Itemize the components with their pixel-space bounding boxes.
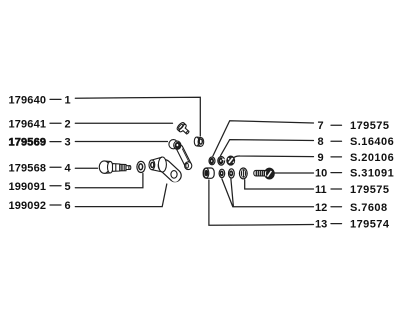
- svg-text:179574: 179574: [350, 219, 390, 231]
- part 9 nut S.20106: [227, 156, 235, 165]
- label row 11 - 179575: [315, 184, 389, 196]
- leader line 8: [221, 140, 314, 156]
- leader line 2: [75, 122, 172, 124]
- leader line 3: [75, 141, 167, 143]
- leader line 11: [245, 180, 314, 189]
- svg-text:179575: 179575: [350, 184, 389, 196]
- part 10 screw S.31091: [254, 168, 274, 179]
- leader line 6: [75, 184, 167, 207]
- svg-text:11: 11: [315, 184, 327, 196]
- svg-text:5: 5: [65, 181, 71, 193]
- svg-text:2: 2: [65, 118, 71, 130]
- part 6 lever arm 199092: [149, 157, 180, 182]
- label row 13 - 179574: [315, 219, 390, 231]
- svg-text:S.16406: S.16406: [350, 136, 394, 148]
- part 11 ring 179575: [239, 168, 247, 179]
- label row 12 - S.7608: [315, 202, 388, 214]
- svg-text:179569: 179569: [9, 137, 47, 149]
- label row 7 - 179575: [318, 120, 390, 132]
- part 4 screw 179568: [99, 161, 131, 173]
- part 13 bushing 179574: [203, 168, 214, 178]
- svg-text:3: 3: [65, 137, 71, 149]
- label row 179640 - 1: [9, 94, 71, 106]
- part 7 ring 179575: [209, 157, 215, 165]
- leader line 5: [75, 174, 143, 188]
- leader line 13: [209, 180, 314, 225]
- leader line 12 (two branches): [222, 179, 314, 207]
- part 1 nut 179640: [194, 137, 203, 146]
- svg-text:S.31091: S.31091: [350, 168, 394, 180]
- svg-text:179640: 179640: [9, 94, 47, 106]
- svg-text:7: 7: [318, 120, 324, 132]
- svg-text:179641: 179641: [9, 118, 47, 130]
- part 12 washer a S.7608: [219, 169, 225, 177]
- leader line 1: [75, 97, 200, 136]
- svg-text:1: 1: [65, 94, 71, 106]
- part 2 shoulder screw 179641: [176, 121, 191, 136]
- svg-text:6: 6: [65, 200, 71, 212]
- leader line 4: [75, 167, 97, 169]
- svg-text:S.7608: S.7608: [350, 202, 388, 214]
- svg-text:9: 9: [318, 152, 324, 164]
- svg-text:8: 8: [318, 136, 324, 148]
- part 3 link arm 179569: [169, 140, 192, 170]
- svg-text:179568: 179568: [9, 162, 47, 174]
- svg-text:13: 13: [315, 219, 327, 231]
- label row 10 - S.31091: [315, 168, 394, 180]
- svg-text:199091: 199091: [9, 181, 47, 193]
- svg-text:S.20106: S.20106: [350, 152, 394, 164]
- svg-text:179575: 179575: [350, 120, 389, 132]
- leader line 7: [213, 121, 314, 156]
- label row 199092 - 6: [9, 200, 71, 212]
- label row 199091 - 5: [9, 181, 71, 193]
- label row 9 - S.20106: [318, 152, 395, 164]
- leader line 9: [234, 156, 314, 158]
- part 5 washer 199091: [137, 161, 145, 172]
- label row 179569 - 3: [9, 137, 71, 149]
- label row 8 - S.16406: [318, 136, 395, 148]
- svg-text:12: 12: [315, 202, 327, 214]
- leader line 10: [275, 172, 314, 174]
- part 8 circlip S.16406: [218, 157, 225, 166]
- part 12 washer b S.7608: [229, 169, 235, 178]
- label row 179568 - 4: [9, 162, 72, 174]
- label row 179641 - 2: [9, 118, 71, 130]
- svg-text:199092: 199092: [9, 200, 47, 212]
- svg-text:4: 4: [65, 162, 72, 174]
- svg-text:10: 10: [315, 168, 327, 180]
